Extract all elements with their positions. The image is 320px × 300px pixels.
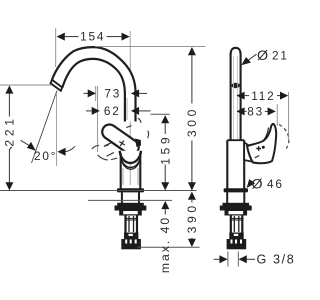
svg-text:390: 390 — [185, 202, 199, 233]
svg-text:73: 73 — [104, 87, 121, 101]
svg-text:20°: 20° — [34, 149, 57, 163]
svg-text:221: 221 — [3, 115, 17, 146]
svg-text:300: 300 — [185, 106, 199, 137]
svg-text:112: 112 — [251, 89, 275, 103]
svg-text:21: 21 — [272, 48, 289, 62]
svg-text:Ø: Ø — [257, 48, 268, 64]
svg-text:83: 83 — [247, 105, 264, 119]
svg-text:46: 46 — [267, 177, 284, 191]
svg-text:Ø: Ø — [252, 176, 263, 192]
svg-text:max. 40: max. 40 — [158, 216, 172, 273]
svg-text:159: 159 — [158, 134, 172, 165]
svg-text:G 3/8: G 3/8 — [257, 253, 296, 267]
svg-text:62: 62 — [104, 104, 121, 118]
svg-text:154: 154 — [80, 30, 105, 44]
